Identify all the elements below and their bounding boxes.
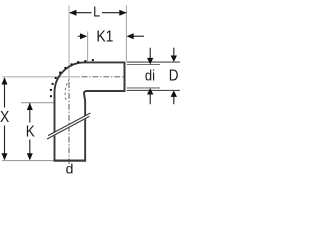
arrow L right <box>119 10 126 16</box>
wire: horizontal centerline dash-dot <box>82 76 126 78</box>
pipe outline: vertical pipe bottom edge <box>54 160 87 162</box>
arrow L left <box>69 10 76 16</box>
wire: bottom extension line for X and K <box>2 160 54 162</box>
svg-text:L: L <box>93 3 100 19</box>
pipe outline: outer bend arc <box>55 62 85 92</box>
wire: right extension line (L / K1 right reference) <box>125 5 127 61</box>
pipe outline: right end face <box>124 62 126 93</box>
wire: horizontal axis extension line (X reference, pipe centerline left part) <box>2 76 80 78</box>
dimension L line <box>70 12 92 14</box>
hidden inner bore dashed curve <box>65 79 69 102</box>
arrow X bottom (pointing down) <box>2 153 8 160</box>
dimension D tails <box>173 48 175 57</box>
dimension K1 tails <box>78 35 81 37</box>
svg-text:di: di <box>145 66 155 83</box>
arrow di top (pointing down) <box>147 58 153 65</box>
arrow X top (pointing up) <box>2 77 8 84</box>
arrow K1 right (pointing left) <box>127 33 134 39</box>
pipe outline: inner corner and vertical pipe right edge <box>84 91 125 161</box>
svg-text:d: d <box>66 160 74 176</box>
di inner wall extension top <box>127 64 160 66</box>
svg-text:D: D <box>169 67 179 84</box>
wire: K top extension line <box>21 102 54 104</box>
arrow di bottom (pointing up) <box>147 88 153 95</box>
pipe outline: horizontal pipe top edge <box>85 61 125 63</box>
dimension X line <box>4 78 6 108</box>
svg-text:K: K <box>26 123 35 140</box>
svg-text:K1: K1 <box>96 28 113 46</box>
pipe outline: vertical pipe left edge <box>54 92 56 161</box>
wire: vertical centerline dash-dot <box>68 82 70 164</box>
break line lower <box>47 116 89 139</box>
break line upper <box>48 113 90 136</box>
dimension di tails <box>149 48 151 59</box>
wire: K1 left extension line <box>87 32 89 62</box>
D outer wall extension bottom <box>127 89 180 91</box>
di inner wall extension bottom <box>127 87 160 89</box>
arrow K1 left (pointing right) <box>80 33 87 39</box>
arrow K bottom (pointing down) <box>27 153 33 160</box>
D outer wall extension top <box>127 61 180 63</box>
wire: vertical axis extension (L left reference) <box>68 5 70 80</box>
dimension K line <box>29 103 31 122</box>
arrow D top (pointing down) <box>171 56 177 63</box>
arrow K top (pointing up) <box>27 103 33 110</box>
svg-text:X: X <box>0 108 9 126</box>
break lines (cut-to-length symbol) white band <box>48 114 92 139</box>
bend knurl dots <box>50 59 94 97</box>
arrow D bottom (pointing up) <box>171 90 177 97</box>
